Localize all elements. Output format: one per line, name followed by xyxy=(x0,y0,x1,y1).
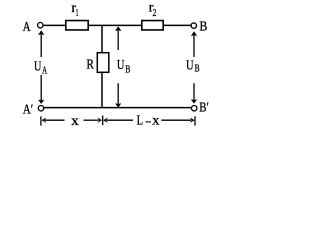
voltage arrow U_A lower segment (arrowhead down) xyxy=(39,75,44,104)
wire: node to resistor R (upper branch) xyxy=(101,26,103,53)
svg-text:B: B xyxy=(195,64,200,75)
svg-text:U: U xyxy=(117,58,125,73)
svg-text:U: U xyxy=(186,59,194,74)
svg-text:R: R xyxy=(86,57,94,72)
svg-text:A: A xyxy=(42,66,47,77)
dimension tick left (below A') xyxy=(40,116,42,125)
terminal B xyxy=(191,23,196,28)
dimension arrow x right (arrowhead right) xyxy=(84,118,102,122)
voltage arrow U_A upper segment (arrowhead up) xyxy=(39,31,44,57)
voltage arrow U_B right upper segment (arrowhead up) xyxy=(191,32,196,57)
svg-text:A: A xyxy=(23,20,32,35)
svg-text:A′: A′ xyxy=(23,102,34,117)
svg-text:B′: B′ xyxy=(199,101,209,116)
label dashes (of L-x) xyxy=(146,121,148,122)
dimension arrow L-x left (arrowhead left) xyxy=(104,118,133,122)
voltage arrow U_B middle upper segment (arrowhead up) xyxy=(116,27,121,50)
wire top: terminal A to resistor r1 xyxy=(43,24,65,26)
svg-text:B: B xyxy=(200,20,208,35)
svg-text:U: U xyxy=(34,59,41,74)
svg-text:2: 2 xyxy=(153,8,157,19)
svg-text:x: x xyxy=(71,114,79,129)
wire top: resistor r2 to terminal B xyxy=(163,24,191,26)
terminal A xyxy=(38,23,43,28)
svg-text:1: 1 xyxy=(76,8,79,19)
svg-text:x: x xyxy=(152,114,159,129)
resistor r2 xyxy=(142,21,163,30)
voltage arrow U_B right lower segment (arrowhead down) xyxy=(191,83,196,103)
resistor R xyxy=(97,53,109,73)
dimension arrow L-x right (arrowhead right) xyxy=(161,118,194,122)
dimension arrow x left (arrowhead left) xyxy=(42,118,65,122)
terminal A' xyxy=(38,106,43,111)
resistor r1 xyxy=(66,21,88,30)
wire: resistor R to bottom wire (lower branch) xyxy=(101,73,103,108)
svg-text:L: L xyxy=(137,114,144,129)
dimension tick middle (below R branch) xyxy=(102,116,104,126)
terminal B' xyxy=(192,106,197,111)
wire top: resistor r1 to resistor r2 (node between) xyxy=(89,24,142,26)
svg-text:B: B xyxy=(125,64,130,75)
wire bottom: terminal A' to terminal B' xyxy=(44,107,192,109)
voltage arrow U_B middle lower segment (arrowhead down) xyxy=(116,83,121,107)
dimension tick right (below B') xyxy=(194,116,196,125)
